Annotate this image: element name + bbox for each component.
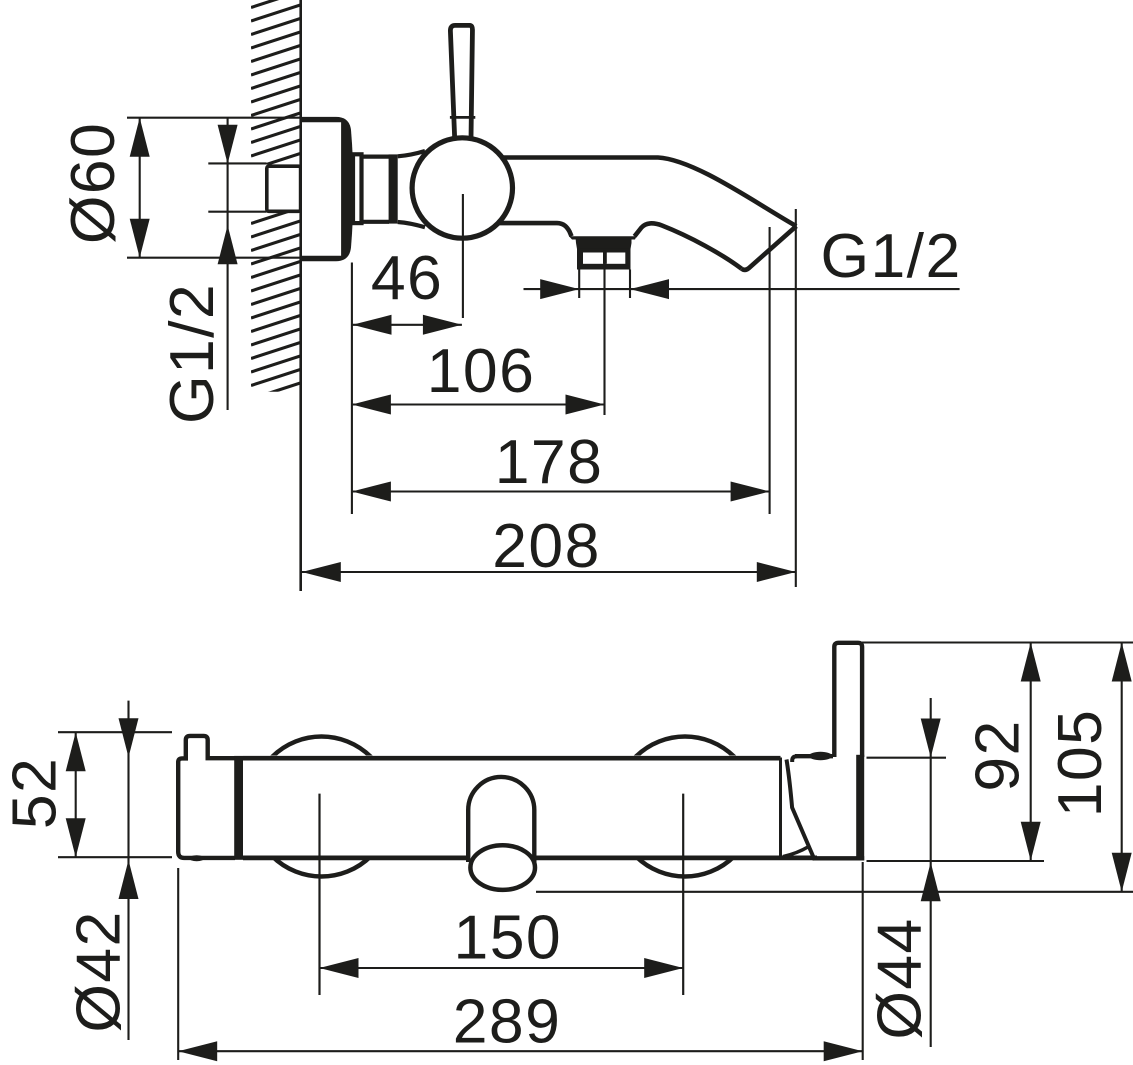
svg-text:178: 178 bbox=[495, 427, 603, 497]
svg-text:92: 92 bbox=[963, 719, 1033, 791]
svg-text:105: 105 bbox=[1045, 709, 1115, 817]
svg-text:289: 289 bbox=[453, 987, 561, 1057]
svg-text:208: 208 bbox=[492, 511, 600, 581]
svg-text:Ø42: Ø42 bbox=[64, 910, 134, 1032]
svg-text:G1/2: G1/2 bbox=[157, 283, 227, 424]
svg-text:Ø60: Ø60 bbox=[58, 122, 128, 244]
svg-text:106: 106 bbox=[427, 336, 535, 406]
svg-text:150: 150 bbox=[454, 903, 562, 973]
svg-text:52: 52 bbox=[0, 757, 70, 829]
svg-text:G1/2: G1/2 bbox=[821, 221, 962, 291]
svg-text:Ø44: Ø44 bbox=[865, 917, 935, 1039]
svg-text:46: 46 bbox=[371, 243, 443, 313]
